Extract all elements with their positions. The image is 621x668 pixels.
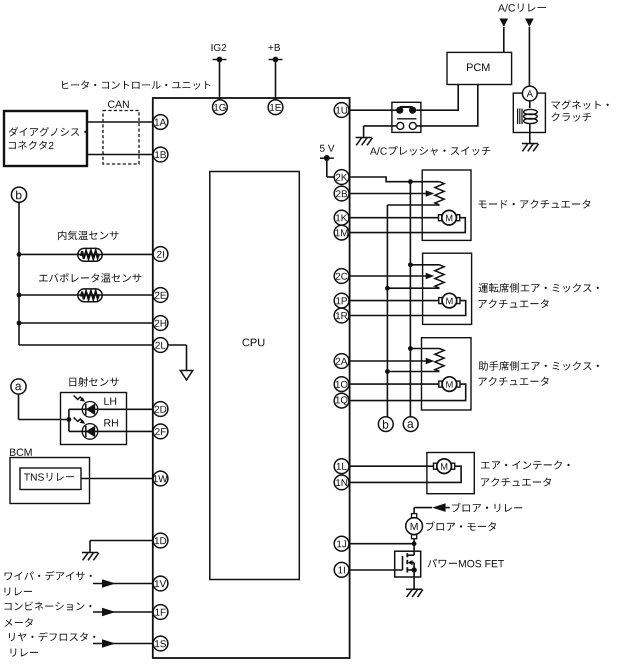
pin 2B	[334, 186, 349, 201]
inside air temp sensor label	[58, 230, 119, 240]
wire motor M1 to 1M	[348, 218, 465, 233]
A/C relay feed arrow to clutch	[525, 19, 534, 87]
wire diag to 1B	[87, 154, 154, 156]
potentiometer VR1	[387, 182, 444, 205]
pin 1R	[334, 308, 349, 323]
combination meter label	[4, 601, 91, 626]
CAN dashed box	[103, 101, 139, 164]
pin 1P	[334, 293, 349, 308]
junction dot photodiode common	[67, 409, 72, 431]
pin 2H	[153, 316, 168, 331]
wire 1U to pressure switch	[348, 109, 399, 111]
pin 1K	[334, 210, 349, 225]
motor M2	[439, 293, 460, 308]
internal ground arrow (open)	[180, 371, 192, 381]
wiper deicer relay label	[5, 571, 92, 596]
motor M1	[439, 210, 460, 225]
wire 1J to drain junction	[348, 543, 414, 545]
blower motor M5	[406, 514, 496, 539]
pin 1V	[153, 576, 168, 591]
node a bottom	[403, 417, 418, 432]
wire RH photodiode to 2F	[69, 430, 154, 432]
motor M3	[439, 377, 460, 392]
pin 1N	[334, 475, 349, 490]
pin 1W	[153, 471, 168, 486]
wire blower motor to MOSFET drain	[412, 539, 417, 556]
PCM pin wires to pressure switch	[416, 85, 478, 126]
pin 1S	[153, 636, 168, 651]
BCM box	[10, 449, 90, 504]
pin 1B	[153, 147, 168, 162]
pin 1M	[334, 225, 349, 240]
pin 1I	[334, 562, 349, 577]
wire TNS relay to 1W	[81, 478, 154, 480]
blower relay feed arrow	[414, 503, 522, 512]
thermistor TH2 evaporator temp sensor	[78, 289, 102, 302]
wire node-b bus	[19, 202, 154, 345]
pin 2I	[153, 247, 168, 262]
motor M4	[434, 459, 455, 474]
mode actuator box	[422, 170, 590, 240]
A/C pressure switch SW1	[370, 102, 490, 155]
power MOS FET Q1	[395, 551, 504, 589]
node b top-left	[11, 187, 26, 202]
PCM box	[447, 52, 512, 84]
5V bus vertical (node a)	[408, 179, 413, 417]
wire pressure switch to ground	[364, 126, 397, 138]
wire thermistor 1 to 2I	[19, 253, 154, 255]
pin 2F	[153, 424, 168, 439]
heater control unit box	[62, 80, 350, 658]
photodiode RH	[74, 418, 118, 440]
wire 1O to motor M3	[348, 383, 439, 385]
wire 1I to MOSFET gate	[348, 569, 402, 571]
wire rear defroster relay to 1S	[93, 639, 154, 648]
wire 1D to ground	[90, 541, 154, 553]
wire 1L to motor M4	[348, 465, 433, 467]
clutch thermal fuse circle A	[522, 86, 537, 101]
5V terminal	[320, 145, 335, 177]
diagnosis connector 2 box	[4, 111, 87, 166]
pin 1Q	[334, 393, 349, 408]
TNS relay box	[20, 468, 81, 490]
photodiode LH	[74, 396, 117, 418]
wire motor M3 to 1Q	[348, 384, 465, 401]
CPU U1	[210, 172, 299, 580]
wire LH photodiode to 2D	[69, 408, 154, 410]
pin 2L	[153, 338, 168, 353]
pin 1O	[334, 377, 349, 392]
+B supply terminal	[269, 44, 283, 100]
ground G2	[356, 138, 373, 146]
node a left	[11, 379, 26, 394]
wire 2C wiper	[348, 273, 434, 279]
wire b bus to 2H	[19, 322, 154, 324]
driver air mix actuator box	[423, 253, 599, 324]
evaporator temp sensor label	[39, 273, 141, 283]
pin 1G	[213, 100, 228, 115]
pin 1L	[334, 459, 349, 474]
wire wiper deicer relay to 1V	[93, 579, 154, 588]
pin 1F	[153, 605, 168, 620]
pin 2A	[334, 354, 349, 369]
wire 2K to 5V bus	[348, 177, 439, 182]
pin 1E	[268, 100, 283, 115]
internal wire 2L to arrow	[168, 345, 187, 371]
potentiometer VR3	[387, 349, 444, 372]
pin 1A	[153, 115, 168, 130]
thermistor TH1 inside air temp sensor	[78, 248, 102, 261]
wire 1K to motor M1	[348, 217, 438, 219]
junction dots on b bus	[17, 252, 22, 325]
pin 2D	[153, 402, 168, 417]
wire 2B wiper	[348, 190, 434, 196]
wire node-a to sensor	[19, 394, 69, 419]
ground bus vertical (node b)	[385, 205, 390, 417]
magnet clutch box	[513, 93, 608, 132]
ground G1	[82, 553, 99, 561]
wire motor M4 to 1N	[348, 466, 461, 482]
pin 1D	[153, 533, 168, 548]
A/C relay feed arrow to PCM	[500, 19, 509, 53]
wire thermistor 2 to 2E	[19, 294, 154, 296]
pin 2E	[153, 288, 168, 303]
ground G3	[522, 144, 539, 152]
wire diag to 1A	[87, 121, 154, 123]
wire combination meter to 1F	[93, 608, 154, 617]
potentiometer VR2	[387, 265, 444, 288]
pin 2C	[334, 269, 349, 284]
pin 2K	[334, 170, 349, 185]
wire relay to blower motor	[413, 508, 415, 514]
wire motor M2 to 1R	[348, 301, 465, 316]
clutch coil L1	[518, 101, 538, 144]
passenger air mix actuator box	[422, 338, 599, 410]
air intake actuator box	[427, 453, 570, 494]
ground G4	[406, 589, 423, 597]
wire 1P to motor M2	[348, 300, 439, 302]
pin 1J	[334, 536, 349, 551]
wire 2A wiper	[348, 358, 434, 364]
IG2 supply terminal	[211, 44, 226, 100]
node b bottom	[378, 417, 393, 432]
sunlight sensor box	[61, 393, 127, 445]
A/C relay label	[498, 3, 546, 11]
rear defroster relay label	[9, 632, 95, 657]
pin 1U	[334, 103, 349, 118]
sunlight sensor label	[69, 377, 118, 387]
